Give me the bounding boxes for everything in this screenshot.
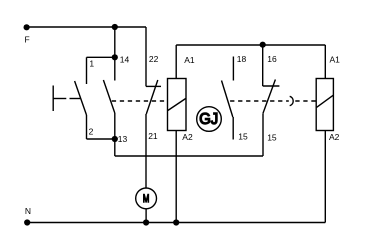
- svg-text:21: 21: [148, 131, 158, 141]
- wire branch 14 to terminal 1: [87, 56, 115, 58]
- contact 18-15 bottom stub: [232, 117, 234, 140]
- svg-text:16: 16: [267, 54, 277, 64]
- wire A2 lead left coil to N: [175, 131, 177, 223]
- wire A1 lead right coil: [324, 45, 326, 79]
- svg-text:15: 15: [238, 132, 248, 142]
- svg-text:F: F: [25, 34, 30, 44]
- svg-text:N: N: [25, 206, 31, 216]
- junction dot coil A2-rail: [173, 219, 179, 225]
- svg-text:1: 1: [89, 58, 94, 68]
- coil KM left rectangle: [168, 79, 187, 131]
- contact 22-21 lever: [146, 80, 158, 114]
- coil right rectangle: [316, 79, 333, 131]
- svg-text:2: 2: [89, 127, 94, 137]
- contact 16-15 top lead: [262, 45, 264, 86]
- contact 16-15 fixed bar: [263, 85, 280, 87]
- contact 18-15 lever: [222, 81, 233, 118]
- node 13 junction dot: [112, 136, 118, 142]
- svg-text:15: 15: [267, 132, 277, 142]
- contact 16-15 lever: [263, 80, 275, 114]
- svg-text:A1: A1: [330, 55, 341, 65]
- mechanical link dashed line after detent: [295, 100, 316, 102]
- svg-text:A2: A2: [182, 132, 193, 142]
- svg-text:18: 18: [237, 54, 247, 64]
- contact 18-15 top stub: [232, 57, 234, 81]
- contact 22-21 fixed bar: [146, 85, 161, 87]
- coil right diagonal: [317, 95, 334, 107]
- svg-text:14: 14: [120, 55, 130, 65]
- contact SB 1-2 bottom lead: [86, 115, 88, 139]
- mechanical link dashed line right run: [230, 100, 289, 102]
- wire top rail corner to contact 22: [145, 27, 147, 86]
- wire N bottom rail: [27, 222, 325, 224]
- junction dot on top rail: [112, 24, 118, 30]
- wire 21 down to motor: [145, 114, 147, 188]
- pushbutton SB actuator: [52, 86, 54, 112]
- wire terminal 2 to node 13: [87, 138, 115, 140]
- wire vertical from rail to contact 13-14: [114, 27, 116, 81]
- wire F top rail: [27, 26, 146, 28]
- svg-text:13: 13: [118, 134, 128, 144]
- junction dot right rail: [260, 42, 266, 48]
- motor M circle: [136, 188, 157, 209]
- svg-text:M: M: [143, 193, 149, 205]
- svg-text:22: 22: [149, 54, 159, 64]
- wire middle horizontal net: [115, 155, 263, 157]
- wire A2 lead right coil to N: [324, 131, 326, 223]
- junction dot motor-rail: [143, 219, 149, 225]
- wire motor to N rail: [145, 209, 147, 223]
- wire A1 lead left coil: [175, 45, 177, 79]
- contact 13-14 lever: [103, 80, 114, 113]
- svg-text:GJ: GJ: [199, 111, 218, 128]
- wire right section top rail: [176, 44, 325, 46]
- node F terminal dot: [24, 24, 30, 30]
- contact SB 1-2 lever: [75, 81, 87, 115]
- relay GJ circle: [197, 107, 222, 132]
- node 14 junction dot: [112, 54, 118, 60]
- latch detent symbol: [290, 96, 294, 105]
- contact 16-15 bottom lead: [262, 113, 264, 156]
- svg-text:A2: A2: [329, 132, 340, 142]
- contact 13-14 bottom lead: [114, 113, 116, 156]
- mechanical link dashed line left run: [112, 100, 168, 102]
- node N terminal dot: [24, 219, 30, 225]
- coil KM left diagonal: [168, 99, 186, 111]
- svg-text:A1: A1: [184, 55, 195, 65]
- contact SB 1-2 top lead: [86, 57, 88, 84]
